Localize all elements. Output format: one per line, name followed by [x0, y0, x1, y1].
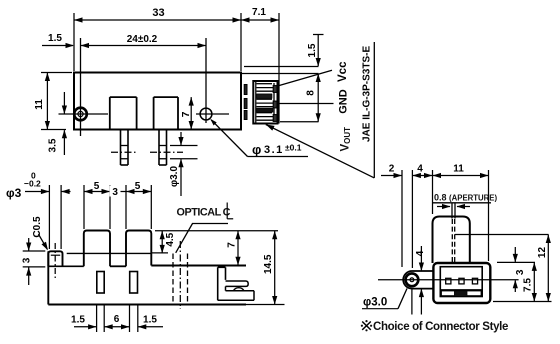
- svg-text:11: 11: [453, 164, 464, 175]
- svg-text:VOUT: VOUT: [340, 127, 353, 152]
- svg-text:8: 8: [306, 90, 317, 96]
- svg-text:C0.5: C0.5: [32, 216, 43, 238]
- svg-text:φ: φ: [252, 142, 261, 157]
- svg-text:4: 4: [415, 250, 426, 256]
- svg-text:0: 0: [31, 171, 36, 181]
- svg-text:7.1: 7.1: [252, 7, 266, 18]
- svg-text:24±0.2: 24±0.2: [127, 34, 158, 45]
- svg-text:1.5: 1.5: [143, 315, 157, 326]
- svg-text:3: 3: [22, 257, 33, 263]
- svg-text:1.5: 1.5: [307, 43, 318, 57]
- svg-text:3: 3: [112, 187, 118, 198]
- svg-text:φ3: φ3: [6, 186, 22, 200]
- svg-text:7.5: 7.5: [523, 278, 534, 292]
- svg-text:1.5: 1.5: [71, 315, 85, 326]
- svg-text:Choice of Connector Style: Choice of Connector Style: [373, 321, 508, 333]
- svg-text:4: 4: [417, 164, 423, 175]
- svg-text:14.5: 14.5: [263, 254, 274, 274]
- svg-text:1.5: 1.5: [48, 33, 62, 44]
- svg-text:4.5: 4.5: [165, 232, 176, 246]
- svg-text:3.5: 3.5: [48, 138, 59, 152]
- svg-text:33: 33: [152, 7, 164, 19]
- svg-text:12: 12: [537, 247, 548, 259]
- svg-text:φ3.0: φ3.0: [363, 297, 387, 309]
- svg-text:2: 2: [389, 164, 395, 175]
- svg-text:JAE IL-G-3P-S3TS-E: JAE IL-G-3P-S3TS-E: [362, 46, 373, 142]
- svg-text:5: 5: [135, 181, 141, 192]
- svg-text:11: 11: [34, 99, 45, 110]
- svg-text:3.1: 3.1: [264, 144, 284, 156]
- svg-text:5: 5: [94, 181, 100, 192]
- svg-text:3: 3: [515, 269, 526, 275]
- svg-text:OPTICAL: OPTICAL: [177, 207, 222, 219]
- svg-text:7: 7: [227, 242, 238, 248]
- svg-text:±0.1: ±0.1: [285, 143, 302, 153]
- svg-text:Vcc: Vcc: [337, 61, 349, 82]
- svg-text:7: 7: [180, 111, 192, 117]
- svg-text:6: 6: [114, 314, 120, 325]
- svg-text:φ3.0: φ3.0: [169, 166, 180, 187]
- svg-text:GND: GND: [338, 89, 350, 114]
